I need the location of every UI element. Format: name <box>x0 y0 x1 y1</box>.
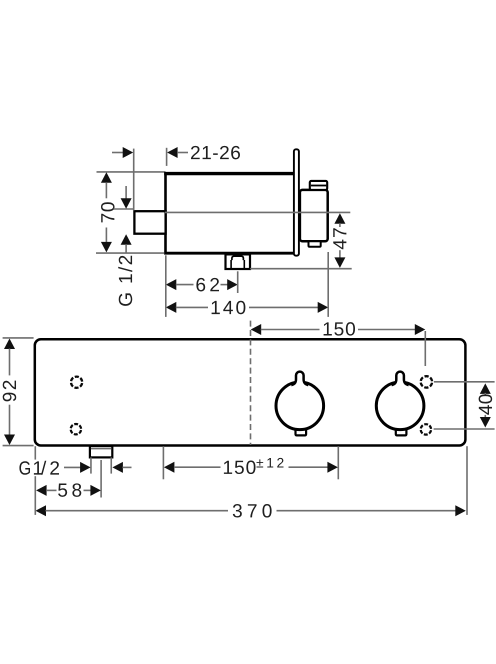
dimension G1/2 side: arrow up at pipe bottom <box>121 234 132 245</box>
dimension 92: label rotated <box>3 381 17 402</box>
dimension 47: down arrow <box>334 257 345 268</box>
dimension 62: left arrow <box>166 279 177 290</box>
right knob circle <box>376 382 424 430</box>
side view: knob cap midline <box>311 185 326 187</box>
dimension 150+-12: label superscript <box>257 458 284 468</box>
side view: body bottom edge <box>164 252 294 255</box>
dimension 70: lower line segment <box>105 228 107 243</box>
dimension 70: label rotated <box>101 202 115 222</box>
dimension 370/58: left extension line (interrupted by G1/2 label) <box>34 446 36 459</box>
dimension 92: upper segment <box>9 349 11 376</box>
dimension 150 top: label <box>324 322 355 336</box>
dimension 62: right segment <box>221 284 228 286</box>
side view: check-valve nut <box>226 254 251 269</box>
dimension 21-26: dim line segment <box>177 152 188 154</box>
dimension 58: label <box>58 483 81 497</box>
dimension 140: right segment <box>249 306 318 308</box>
dimension 62: left segment <box>176 284 194 286</box>
dimension G1/2 side: tail above <box>125 186 127 199</box>
stub right thread extension <box>110 457 112 473</box>
left knob stem <box>291 372 308 386</box>
dimension G1/2 front: right tail <box>122 466 131 468</box>
dimension G1/2 front: arrow right <box>80 462 91 473</box>
front view: right knob <box>376 372 424 436</box>
dimension 370: label <box>233 504 272 518</box>
side view: body fill <box>164 172 295 254</box>
front view: left upper mounting hole <box>71 377 82 388</box>
dimension 140: right arrow <box>318 302 329 313</box>
dimension 40: upper tiny segment <box>484 393 486 395</box>
dimension 40: down arrow <box>480 417 491 428</box>
dimension 40: lower tiny segment <box>484 415 486 418</box>
dimension 150 top: right extension line <box>424 331 426 366</box>
side view: body top edge <box>164 172 294 175</box>
dimension 150+-12: right segment <box>289 466 328 468</box>
left knob foot <box>296 429 307 435</box>
front view: right upper mounting hole <box>421 376 432 387</box>
front view: right lower mounting hole <box>421 424 431 434</box>
right knob foot <box>396 429 407 435</box>
dimension G1/2 side: arrow down at pipe top <box>121 198 132 209</box>
side view: knob body <box>300 190 328 241</box>
dimension 370: right arrow <box>455 505 466 516</box>
dimension 150+-12: right extension line <box>337 446 339 479</box>
dimension 70: upper line segment <box>105 182 107 198</box>
dimension 150 top: right arrow <box>415 324 426 335</box>
dimension 70: bottom arrow down <box>101 242 112 253</box>
dimension 370: right segment <box>277 510 456 512</box>
stub left thread extension <box>90 457 92 473</box>
dimension 21-26: outside arrow pointing right <box>123 147 134 158</box>
dimension G1/2 front: label <box>19 461 59 475</box>
right knob stem <box>392 372 409 386</box>
left knob circle <box>276 382 324 430</box>
dimension 92: top extension line <box>3 337 34 339</box>
dimension 140: left segment <box>176 306 208 308</box>
dimension 92: up arrow <box>4 339 15 350</box>
front view: body <box>35 339 466 445</box>
dimension 150+-12: right arrow <box>327 462 338 473</box>
dimension 62: right arrow <box>227 279 238 290</box>
dimension 140/62: extension line at body front <box>165 255 167 317</box>
dimension 150 top: left segment <box>261 329 320 331</box>
dimension 58: right segment <box>84 489 91 491</box>
dimension G1/2 side: extension line at pipe top <box>114 208 134 210</box>
side view: outlet pipe G1/2 <box>134 211 165 234</box>
dimension 150 top: right segment <box>358 329 415 331</box>
dimension 21-26: label <box>191 146 240 160</box>
stub thread line <box>91 448 111 450</box>
front view: outlet stub <box>90 446 112 457</box>
dimension 62: extension line at nut center <box>237 271 239 293</box>
dimension 47: bottom extension line <box>250 268 352 270</box>
dimension 21-26: left outside arrow tail <box>112 152 124 154</box>
side view: pipe-top level thin line (47 top extension) <box>165 211 350 213</box>
dimension 47: label rotated <box>333 228 346 249</box>
dimension 58: left segment <box>46 489 56 491</box>
side view: bottom extension line (70 bottom) <box>96 252 164 254</box>
dimension G1/2 side: tail below <box>125 244 127 253</box>
dimension G1/2 front: left tail <box>64 466 81 468</box>
dimension 47: lower segment <box>339 250 341 258</box>
side view: knob bottom foot <box>309 241 321 247</box>
dimension 47: up arrow <box>334 213 345 224</box>
dimension 21-26: arrow pointing left <box>167 147 178 158</box>
dimension 140: label <box>212 301 246 315</box>
dimension G1/2 side: label rotated <box>118 256 132 306</box>
dimension 62: label <box>196 278 219 292</box>
dimension 40: up arrow <box>480 383 491 394</box>
dimension 70: top arrow up <box>101 172 112 183</box>
side view: wall plate <box>294 149 299 255</box>
dimension 47: upper segment <box>339 223 341 227</box>
dimension 150+-12: left arrow <box>164 462 175 473</box>
dimension 150+-12: left extension line <box>162 446 164 479</box>
dimension 58: right arrow <box>90 485 101 496</box>
dimension 40: top extension line <box>434 381 495 383</box>
front view: left lower mounting hole <box>71 424 81 434</box>
dimension 150+-12: label main <box>224 461 256 475</box>
front view: left knob <box>276 372 324 436</box>
stub center extension line <box>100 460 102 498</box>
dimension 40: label rotated <box>479 394 493 414</box>
dimension 40: bottom extension line <box>434 428 495 430</box>
dimension 92: down arrow <box>4 435 15 446</box>
dimension 140: left arrow <box>166 302 177 313</box>
front view: center dashed line <box>250 321 252 445</box>
dimension G1/2 front: arrow left <box>112 462 123 473</box>
side view: 70 top extension line <box>97 171 166 173</box>
dimension 58: left arrow <box>36 485 47 496</box>
dimension 370: right extension line <box>466 446 468 515</box>
dimension 92: lower segment <box>9 405 11 435</box>
dimension 150+-12: left segment <box>174 466 221 468</box>
dimension 92: bottom extension line <box>3 445 34 447</box>
side view: knob top cap <box>310 181 327 190</box>
side view: nut facet lines <box>230 260 232 268</box>
side view: body left edge <box>164 172 167 254</box>
dimension 370: left segment <box>46 510 229 512</box>
dimension 21-26: extension line at body front <box>166 148 168 166</box>
dimension 21-26: extension line at pipe left edge <box>133 149 135 211</box>
dimension 370: left arrow <box>36 505 47 516</box>
side view: nut collar <box>232 256 244 260</box>
dimension 150 top: left arrow <box>251 324 262 335</box>
dimension 140: extension line at knob face <box>327 252 329 317</box>
